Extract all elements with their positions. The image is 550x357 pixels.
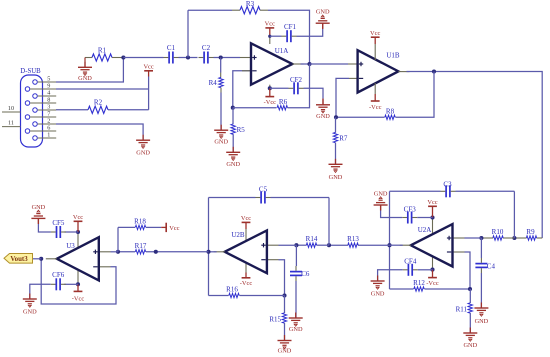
svg-text:D-SUB: D-SUB (20, 68, 41, 75)
wire R18 right (146, 226, 161, 228)
svg-text:R18: R18 (134, 218, 146, 226)
svg-text:11: 11 (8, 119, 14, 126)
power Vcc at U1B (371, 36, 380, 38)
svg-text:5: 5 (47, 75, 50, 82)
wire CF6 left to GND (30, 284, 51, 299)
svg-text:GND: GND (329, 174, 343, 181)
wire CF4 right (418, 269, 433, 271)
wire pin5 to node A (56, 58, 123, 83)
wire CF3 left to GND (381, 211, 403, 218)
power -Vcc at U2B (245, 273, 247, 278)
wire R1 left to GND stem (85, 57, 92, 59)
op-amp U1A (251, 43, 292, 84)
wire pin2 to GND (56, 124, 143, 140)
resistor R6 (277, 106, 287, 110)
connector J1 pin 8 lead (30, 102, 56, 104)
junction CF1 tee (268, 35, 271, 38)
op-amp U1B (358, 50, 399, 92)
svg-text:R4: R4 (209, 79, 218, 87)
resistor R16 (229, 293, 239, 297)
wire R12 left (390, 288, 414, 290)
wire R7 to GND (335, 143, 337, 165)
resistor R8 (385, 115, 395, 119)
wire R17 to U3 plus (111, 251, 119, 253)
resistor R4 (219, 77, 223, 87)
svg-text:R15: R15 (269, 315, 281, 323)
resistor R3 (240, 7, 260, 14)
svg-text:Vcc: Vcc (169, 225, 179, 232)
wire U2A output to R13 (390, 244, 403, 246)
wire pin9 to Vcc/R2 node (56, 88, 149, 90)
ground GND at R7 (335, 159, 337, 165)
wire R4 to GND (220, 93, 222, 131)
junction U2A output node (387, 243, 391, 247)
wire minus node down to R7 (335, 117, 337, 132)
resistor R1 (92, 54, 112, 61)
wire C3 right (456, 190, 515, 192)
pin R9 right (537, 237, 543, 239)
junction R8 top node (432, 69, 436, 73)
wire node M up (513, 191, 515, 238)
svg-text:Vcc: Vcc (241, 215, 251, 222)
junction R17 right node (154, 250, 158, 254)
svg-text:1: 1 (47, 131, 50, 138)
pin R3 right (260, 9, 268, 11)
svg-text:GND: GND (78, 75, 92, 82)
svg-text:C1: C1 (167, 44, 176, 52)
wire C5 left seg (209, 197, 256, 199)
svg-text:C5: C5 (259, 185, 268, 193)
wire R11 to GND (469, 313, 471, 333)
svg-text:Vcc: Vcc (143, 63, 153, 70)
junction node B (186, 55, 190, 59)
svg-text:CF5: CF5 (52, 219, 65, 227)
wire CF1 right to GND stem (297, 29, 323, 36)
ground GND at R11 (469, 328, 471, 334)
svg-text:Vcc: Vcc (370, 30, 380, 37)
capacitor C4 (475, 263, 487, 265)
svg-text:CF4: CF4 (404, 258, 417, 266)
junction R18 node (116, 250, 120, 254)
wire U1B output to right edge (407, 72, 543, 239)
svg-text:R10: R10 (492, 228, 504, 236)
connector J1 D-SUB body (21, 75, 43, 147)
svg-text:R14: R14 (306, 235, 318, 243)
wire C4 bottom to GND (480, 273, 482, 308)
wire R18 left (118, 226, 135, 228)
connector J1 pin 4 circle (33, 94, 38, 99)
wire node C down to R4 (220, 58, 222, 73)
connector J1 pin 3 lead (38, 109, 57, 111)
connector J1 pin 1 lead (38, 137, 57, 139)
svg-text:C2: C2 (202, 44, 211, 52)
svg-text:U2A: U2A (418, 226, 432, 234)
svg-text:CF6: CF6 (52, 271, 65, 279)
svg-text:GND: GND (214, 139, 228, 146)
junction node A (121, 55, 125, 59)
pin U3 plus input (100, 251, 111, 253)
capacitor CF3 (407, 212, 409, 224)
svg-text:R17: R17 (135, 242, 147, 250)
pin R9 left (514, 237, 526, 239)
wire C5 vertical right (328, 198, 330, 246)
capacitor CF4 (407, 264, 409, 276)
resistor R13 (348, 243, 358, 247)
wire C3 left (390, 190, 441, 192)
wire pin9 node down to R2 (148, 89, 150, 110)
capacitor CF5 (56, 226, 58, 238)
wire U2B output to junction (209, 251, 217, 253)
ground GND at CF2 (322, 99, 324, 105)
pin R3 left (232, 9, 240, 11)
wire U2B node to R17 (146, 251, 209, 253)
svg-text:GND: GND (32, 204, 46, 211)
power -Vcc at U2A (432, 270, 434, 278)
connector J1 pin 9 lead (30, 88, 56, 90)
wire R5 to GND (232, 134, 234, 152)
svg-text:U3: U3 (66, 242, 75, 250)
svg-text:6: 6 (47, 124, 50, 131)
ground GND above CF5 (37, 218, 39, 224)
svg-text:R11: R11 (456, 305, 468, 313)
svg-text:U1A: U1A (275, 47, 289, 55)
junction C5 right node (327, 243, 331, 247)
svg-text:R9: R9 (526, 228, 535, 236)
svg-text:R5: R5 (237, 126, 246, 134)
wire R14 left (296, 244, 306, 246)
capacitor CF1 (286, 30, 288, 42)
pin U2A output (400, 244, 411, 246)
wire U1B minus loop (336, 78, 349, 117)
wire R11 node down (469, 289, 471, 303)
power Vcc at pin9 node (148, 71, 150, 77)
wire CF5 right (65, 231, 79, 233)
wire U2A feedback vertical (389, 191, 391, 289)
capacitor C2 (203, 52, 205, 64)
power -Vcc at U1B (374, 94, 376, 101)
svg-text:R6: R6 (279, 98, 288, 106)
wire C4 top (480, 238, 482, 258)
ground GND at C6 (295, 313, 297, 319)
connector J1 pin 6 lead (30, 130, 56, 132)
pin U3 V+ power (77, 232, 79, 249)
pin U1B V+ power (374, 44, 376, 60)
wire node B up to R3 row (187, 10, 189, 57)
svg-text:-Vcc: -Vcc (264, 99, 277, 106)
resistor R10 (493, 236, 503, 240)
svg-text:3: 3 (47, 103, 50, 110)
pin U3 minus input (100, 266, 111, 268)
pin U1A plus input (240, 57, 250, 59)
svg-text:U2B: U2B (231, 231, 245, 239)
power -Vcc at U3 (77, 284, 79, 291)
power Vcc at R18 (161, 226, 166, 228)
connector J1 pin 10 lead (2, 111, 21, 113)
wire R18 node up (117, 227, 119, 251)
ground GND at pin2 (142, 135, 144, 141)
pin U2A minus input (454, 251, 465, 253)
resistor R15 (282, 313, 286, 323)
pin U2A plus input (454, 237, 465, 239)
pin U2A V+ power (432, 218, 434, 236)
connector J1 pin 4 lead (38, 95, 57, 97)
pin U2B output (214, 251, 225, 253)
capacitor C6 (290, 271, 302, 273)
junction R11 node (468, 287, 472, 291)
pin U2A V- power (432, 256, 434, 270)
svg-text:GND: GND (23, 309, 37, 316)
pin R10 left (481, 237, 493, 239)
wire node D to U1B plus (310, 63, 349, 65)
power Vcc at U2A (428, 205, 437, 207)
svg-text:GND: GND (463, 342, 477, 349)
svg-text:R2: R2 (94, 99, 103, 107)
svg-text:8: 8 (47, 96, 50, 103)
connector J1 pin 8 circle (25, 101, 30, 106)
pin U1A minus input (242, 70, 250, 72)
svg-text:R1: R1 (98, 46, 107, 54)
wire R17 left (118, 251, 135, 253)
pin U2B V- power (245, 264, 247, 273)
wire C6 top (295, 245, 297, 266)
junction C6 node (294, 243, 298, 247)
svg-text:7: 7 (47, 110, 50, 117)
ground GND above CF3 (380, 205, 382, 211)
junction R15 node (282, 293, 286, 297)
connector J1 pin 9 circle (25, 87, 30, 92)
wire R15 to GND (284, 323, 286, 341)
svg-text:-Vcc: -Vcc (240, 280, 253, 287)
svg-text:GND: GND (289, 326, 303, 333)
pin U1A V- power (269, 85, 271, 89)
svg-text:CF1: CF1 (284, 23, 297, 31)
wire C6 node to U2B plus (279, 244, 297, 246)
resistor R17 (135, 250, 145, 254)
wire C2 to node C (214, 57, 241, 59)
wire R3 left (188, 9, 232, 11)
wire C1 to node B (179, 57, 198, 59)
wire CF6 right (64, 283, 78, 285)
ground GND at C4 (480, 303, 482, 309)
pin U2B V+ power (245, 229, 247, 242)
power -Vcc at U1A (269, 88, 271, 96)
svg-text:GND: GND (374, 190, 388, 197)
svg-text:Vout3: Vout3 (10, 256, 28, 263)
wire U1A output to node D (301, 63, 310, 65)
svg-text:GND: GND (316, 9, 330, 16)
wire R6 right up to node D (288, 64, 310, 108)
wire C6 bottom to GND (295, 281, 297, 318)
connector J1 pin 11 lead (2, 126, 21, 128)
junction U3 V+ node (76, 230, 80, 234)
junction U2B output node (206, 250, 210, 254)
wire R3 right to output node (268, 10, 310, 64)
ground GND at R4 (220, 125, 222, 131)
connector J1 pin 2 circle (33, 122, 38, 127)
wire C5 right seg (271, 197, 330, 199)
pin U3 output (46, 258, 57, 260)
wire R16 left (209, 295, 229, 297)
wire C4 node to U2A plus (465, 237, 482, 239)
pin U3 V- power (77, 270, 79, 285)
pin R10 right (503, 237, 514, 239)
ground GND at R15 (284, 335, 286, 341)
capacitor CF6 (55, 278, 57, 290)
svg-text:GND: GND (226, 161, 240, 168)
ground GND at R5 (232, 147, 234, 153)
pin R1 right (112, 57, 123, 59)
svg-text:-Vcc: -Vcc (369, 104, 382, 111)
svg-text:R12: R12 (413, 279, 425, 287)
connector J1 pin 5 circle (33, 80, 38, 85)
pin U1B minus input (349, 77, 357, 79)
power Vcc at U1A (265, 27, 274, 29)
junction U2A V- node (430, 268, 434, 272)
svg-text:CF3: CF3 (404, 205, 417, 213)
junction U1A V- node (268, 86, 272, 90)
junction U1A minus node (231, 106, 235, 110)
connector J1 pin 5 lead (38, 81, 57, 83)
svg-text:R16: R16 (226, 285, 238, 293)
junction C4 node (479, 236, 483, 240)
junction node D (307, 62, 311, 66)
wire CF5 left to GND (38, 224, 51, 232)
svg-text:2: 2 (47, 117, 50, 124)
wire node A to C1 (123, 57, 163, 59)
svg-text:4: 4 (47, 89, 50, 96)
svg-text:-Vcc: -Vcc (72, 295, 85, 302)
wire R13 right (358, 244, 390, 246)
resistor R7 (333, 132, 337, 142)
wire C5 node to R14 (317, 244, 330, 246)
junction U1B minus node (334, 115, 338, 119)
svg-text:GND: GND (371, 291, 385, 298)
connector J1 pin 7 circle (25, 115, 30, 120)
wire U2A minus loop (465, 252, 471, 289)
resistor R14 (306, 243, 316, 247)
resistor R9 (526, 236, 536, 240)
resistor R11 (468, 303, 472, 313)
svg-text:Vcc: Vcc (427, 199, 437, 206)
resistor R12 (414, 287, 424, 291)
ground GND at R1 (84, 58, 86, 68)
svg-text:10: 10 (8, 105, 14, 112)
junction U2A V+ node (430, 215, 434, 219)
svg-text:Vcc: Vcc (73, 214, 83, 221)
junction node C (219, 55, 223, 59)
svg-text:R8: R8 (386, 108, 395, 116)
wire U3 minus loop (41, 259, 116, 304)
wire R2 right to vertical (108, 109, 149, 111)
pin U1B V- power (374, 83, 376, 94)
junction node M (512, 236, 516, 240)
pin R4 bottom (220, 88, 222, 93)
svg-text:U1B: U1B (386, 51, 400, 59)
pin U1A output (292, 63, 303, 65)
svg-text:GND: GND (278, 348, 292, 355)
power Vcc at U3 (74, 220, 83, 222)
svg-text:C6: C6 (301, 270, 310, 278)
resistor R2 (88, 106, 108, 113)
wire R15 node down (284, 296, 286, 314)
wire R8 right up (396, 72, 435, 118)
capacitor C3 (445, 185, 447, 197)
svg-text:CF2: CF2 (290, 76, 303, 84)
wire CF3 right (417, 217, 432, 219)
svg-text:C3: C3 (443, 180, 452, 188)
resistor R18 (135, 225, 145, 229)
wire Vcc stub to pin9 node (148, 77, 150, 90)
connector J1 pin 7 lead (30, 116, 56, 118)
svg-text:R7: R7 (339, 134, 348, 142)
wire CF1 left (270, 35, 282, 37)
wire pin3 to R2 left (56, 109, 88, 111)
pin R4 top (220, 73, 222, 78)
wire R13 left (329, 244, 348, 246)
op-amp U2B (225, 230, 267, 273)
port Vout3 (4, 254, 33, 264)
power Vcc at U2B (242, 221, 251, 223)
wire R8 net (336, 116, 385, 118)
ground GND at CF6 (29, 294, 31, 300)
svg-text:Vcc: Vcc (265, 21, 275, 28)
capacitor C1 (168, 52, 170, 64)
svg-text:GND: GND (136, 150, 150, 157)
svg-text:R3: R3 (246, 0, 255, 8)
connector J1 pin 2 lead (38, 123, 57, 125)
capacitor C5 (260, 192, 262, 204)
wire CF2 right to GND (304, 88, 324, 98)
svg-text:GND: GND (475, 318, 489, 325)
connector J1 pin 3 circle (33, 108, 38, 113)
connector J1 pin 6 circle (25, 129, 30, 134)
pin U1A V+ power (269, 36, 271, 44)
capacitor CF2 (293, 82, 295, 94)
junction U3 output node (39, 257, 43, 261)
wire minus node to R6 (233, 107, 277, 109)
wire CF4 left to GND (378, 270, 403, 281)
pin U1B output (398, 71, 409, 73)
wire minus node down to R5 (232, 108, 234, 125)
op-amp U2A (411, 224, 453, 266)
wire C5/R16 vertical (208, 198, 210, 296)
junction U3 V- node (76, 282, 80, 286)
wire R12 right (425, 288, 471, 290)
pin U2B plus input (268, 244, 279, 246)
pin U1B plus input (348, 63, 357, 65)
svg-text:GND: GND (316, 113, 330, 120)
wire R16 right (240, 295, 285, 297)
op-amp U3 (57, 237, 99, 280)
svg-text:R13: R13 (347, 235, 359, 243)
wire U3 output to port (33, 258, 42, 260)
wire U1A minus loop (233, 71, 250, 108)
connector J1 pin 1 circle (33, 136, 38, 141)
svg-text:9: 9 (47, 82, 50, 89)
ground GND at CF4 (377, 276, 379, 282)
svg-text:C4: C4 (487, 262, 496, 270)
resistor R5 (231, 124, 235, 134)
pin U2B minus input (268, 259, 279, 261)
ground GND above CF1 (322, 23, 324, 29)
svg-text:-Vcc: -Vcc (426, 280, 439, 287)
wire CF2 left (270, 87, 289, 89)
wire U2B minus loop (279, 260, 285, 296)
